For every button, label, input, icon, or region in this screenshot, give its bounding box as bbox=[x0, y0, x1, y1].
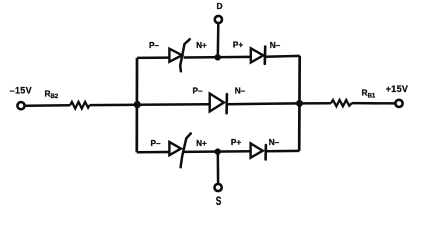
svg-text:RB1: RB1 bbox=[362, 88, 376, 100]
diode D4 bent cathode bar bbox=[181, 133, 191, 167]
diode D5 cathode bar bbox=[264, 145, 267, 159]
svg-text:S: S bbox=[216, 196, 222, 209]
wire bottom branch right segment bbox=[266, 150, 300, 153]
terminal -15V bbox=[17, 102, 24, 109]
svg-text:N+: N+ bbox=[196, 139, 207, 148]
node right junction bbox=[296, 100, 303, 107]
svg-text:N–: N– bbox=[269, 138, 280, 147]
diode D3 cathode bar bbox=[225, 94, 228, 113]
diode D1 bent cathode bar bbox=[180, 39, 190, 71]
terminal S circle bbox=[215, 184, 222, 191]
diode D2 triangle bbox=[251, 48, 263, 62]
terminal D circle bbox=[215, 16, 222, 23]
node bottom center junction bbox=[215, 148, 221, 154]
svg-text:N+: N+ bbox=[196, 41, 207, 50]
svg-text:–15V: –15V bbox=[10, 85, 32, 95]
resistor RB2 bbox=[70, 102, 90, 109]
svg-text:P–: P– bbox=[150, 139, 160, 148]
wire top branch left segment bbox=[137, 56, 169, 59]
diode D3 triangle bbox=[210, 94, 224, 112]
diode D4 triangle bbox=[169, 142, 181, 155]
wire bottom branch left segment bbox=[137, 151, 170, 154]
wire left terminal to resistor RB2 bbox=[26, 104, 70, 107]
wire bottom branch middle segment bbox=[184, 150, 251, 153]
svg-text:+15V: +15V bbox=[386, 84, 408, 94]
terminal +15V bbox=[395, 100, 402, 107]
diode D2 cathode bar bbox=[263, 47, 266, 64]
svg-text:P+: P+ bbox=[231, 138, 241, 147]
svg-text:N–: N– bbox=[270, 41, 281, 50]
wire resistor RB2 to left junction bbox=[90, 104, 138, 107]
wire middle branch right segment bbox=[227, 102, 300, 105]
wire right junction to resistor RB1 bbox=[300, 102, 331, 105]
wire resistor RB1 to right terminal bbox=[352, 102, 395, 105]
diode D5 triangle bbox=[251, 143, 263, 157]
wire right vertical bbox=[298, 56, 301, 151]
node top center junction bbox=[215, 54, 221, 60]
wire left vertical bbox=[135, 58, 138, 152]
resistor RB1 bbox=[331, 100, 352, 106]
svg-text:D: D bbox=[216, 1, 222, 11]
svg-text:P–: P– bbox=[149, 41, 159, 50]
wire top branch middle segment bbox=[184, 56, 251, 59]
wire middle branch left segment bbox=[137, 103, 209, 106]
wire top branch right segment bbox=[265, 55, 300, 58]
svg-text:RB2: RB2 bbox=[45, 88, 59, 100]
node left junction bbox=[134, 101, 141, 108]
svg-text:P–: P– bbox=[192, 87, 202, 96]
diode D1 triangle bbox=[169, 49, 182, 62]
wire S stem bbox=[217, 152, 220, 184]
svg-text:P+: P+ bbox=[233, 40, 243, 49]
wire D stem bbox=[217, 24, 220, 57]
svg-text:N–: N– bbox=[235, 87, 246, 96]
